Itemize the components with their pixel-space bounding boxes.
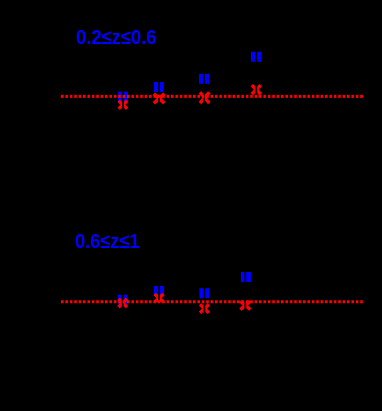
svg-text:0.2≤z≤0.6: 0.2≤z≤0.6 xyxy=(76,27,157,49)
red X markers bottom panel xyxy=(120,295,249,312)
left arrowhead of top line xyxy=(60,94,63,98)
blue squares top panel xyxy=(118,52,262,102)
blue squares bottom panel xyxy=(118,272,251,305)
red X markers top panel xyxy=(120,86,260,107)
bottom red dotted reference line xyxy=(61,300,364,303)
right arrowhead of top line xyxy=(361,94,364,98)
small red error-bar stub under top-right X xyxy=(258,93,260,98)
svg-text:0.6≤z≤1: 0.6≤z≤1 xyxy=(75,231,140,253)
top red dotted reference line xyxy=(61,95,364,98)
black centre slits over markers xyxy=(122,52,257,314)
